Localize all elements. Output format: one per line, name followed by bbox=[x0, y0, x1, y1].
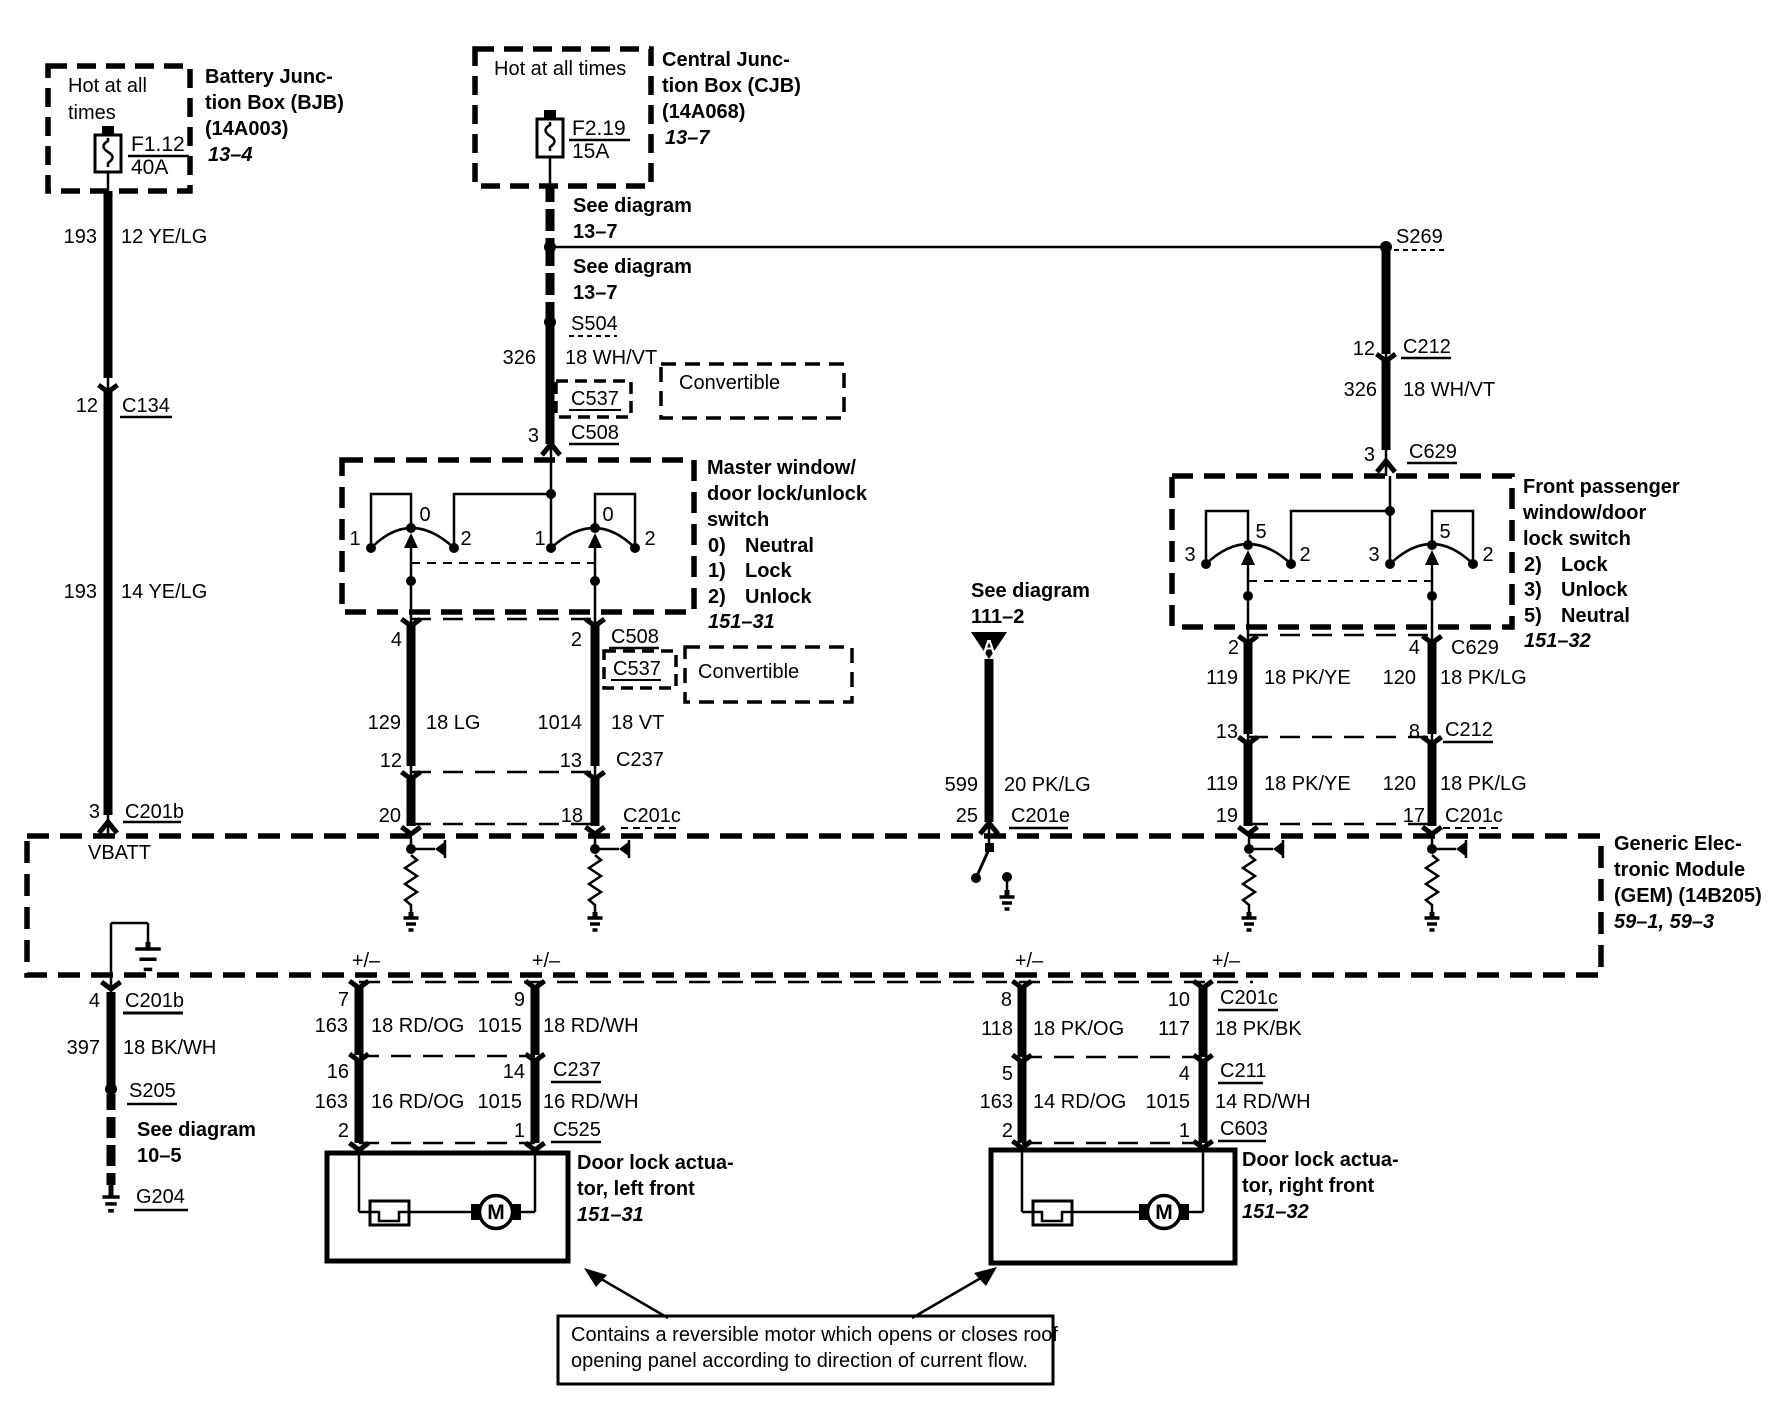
svg-text:12: 12 bbox=[380, 750, 402, 772]
svg-text:3: 3 bbox=[1184, 544, 1195, 566]
svg-text:C201c: C201c bbox=[623, 805, 681, 827]
front passenger window / door lock switch dashed box bbox=[1172, 476, 1512, 627]
svg-text:163: 163 bbox=[315, 1015, 348, 1037]
svg-text:C237: C237 bbox=[553, 1059, 601, 1081]
svg-text:Convertible: Convertible bbox=[679, 372, 780, 394]
svg-text:0: 0 bbox=[419, 504, 430, 526]
svg-text:See diagram: See diagram bbox=[971, 580, 1090, 602]
svg-text:+/–: +/– bbox=[1212, 950, 1241, 972]
svg-text:193: 193 bbox=[64, 226, 97, 248]
svg-text:3): 3) bbox=[1524, 579, 1542, 601]
svg-text:tronic Module: tronic Module bbox=[1614, 859, 1745, 881]
svg-text:C201e: C201e bbox=[1011, 805, 1070, 827]
svg-text:3: 3 bbox=[528, 425, 539, 447]
label See diagram 111-2 bbox=[971, 580, 1090, 628]
svg-text:12: 12 bbox=[76, 395, 98, 417]
svg-text:Convertible: Convertible bbox=[698, 661, 799, 683]
Convertible callout box lower bbox=[685, 647, 852, 702]
svg-text:M: M bbox=[487, 1201, 505, 1224]
wire passenger pin2 to GEM, circuit 119 18 PK/YE bbox=[1244, 643, 1253, 734]
labels pins 7 and 9 bbox=[338, 989, 525, 1011]
svg-text:C525: C525 bbox=[553, 1119, 601, 1141]
svg-text:C629: C629 bbox=[1451, 637, 1499, 659]
labels pins 8 and 10 and C201c bbox=[1001, 987, 1278, 1011]
svg-text:119: 119 bbox=[1206, 773, 1238, 795]
master switch label block bbox=[707, 457, 868, 633]
svg-text:18 RD/OG: 18 RD/OG bbox=[371, 1015, 464, 1037]
svg-text:2: 2 bbox=[338, 1120, 349, 1142]
svg-text:1: 1 bbox=[349, 528, 360, 550]
connector C508 pin 3 into master switch bbox=[528, 422, 619, 460]
svg-text:Battery Junc-: Battery Junc- bbox=[205, 66, 333, 88]
svg-text:18 WH/VT: 18 WH/VT bbox=[1403, 379, 1495, 401]
svg-text:C201c: C201c bbox=[1220, 987, 1278, 1009]
svg-text:C629: C629 bbox=[1409, 441, 1457, 463]
note box about reversible motor bbox=[558, 1316, 1058, 1384]
svg-text:+/–: +/– bbox=[1015, 950, 1044, 972]
svg-text:120: 120 bbox=[1383, 773, 1416, 795]
svg-text:13–7: 13–7 bbox=[573, 282, 618, 304]
wires C211 to C603, circuits 163 14 RD/OG 1015 14 RD/WH bbox=[980, 1062, 1311, 1143]
svg-text:S205: S205 bbox=[129, 1080, 176, 1102]
svg-text:Hot at all times: Hot at all times bbox=[494, 58, 626, 80]
connector C201b pin 3 into GEM bbox=[89, 801, 184, 834]
dashed wire S205 to G204 bbox=[107, 1094, 116, 1185]
svg-text:A: A bbox=[983, 637, 996, 657]
resistor with sense arrow and ground inside GEM for wire 19 bbox=[1242, 838, 1284, 930]
actuator internal wiring tor, left front bbox=[359, 1153, 535, 1212]
svg-text:13–7: 13–7 bbox=[665, 127, 710, 149]
svg-text:5: 5 bbox=[1002, 1063, 1013, 1085]
svg-text:2: 2 bbox=[571, 629, 582, 651]
long connector line C201c below GEM bottom bbox=[359, 981, 1253, 984]
connector C629 pin 3 into passenger switch bbox=[1364, 441, 1457, 476]
svg-text:+/–: +/– bbox=[532, 950, 561, 972]
connector C537 (convertible) box upper bbox=[556, 381, 631, 417]
svg-text:times: times bbox=[68, 102, 116, 124]
svg-text:1: 1 bbox=[534, 528, 545, 550]
svg-text:See diagram: See diagram bbox=[137, 1119, 256, 1141]
svg-text:326: 326 bbox=[503, 347, 536, 369]
note arrow to right actuator bbox=[912, 1267, 997, 1318]
master window / door lock unlock switch dashed box bbox=[342, 460, 694, 612]
wire from F1.12 to C134, circuit 193 12 YE/LG bbox=[107, 172, 110, 392]
svg-text:59–1, 59–3: 59–1, 59–3 bbox=[1614, 911, 1714, 933]
connector C201e pin 25 at GEM bbox=[956, 805, 1070, 836]
resistor with sense arrow and ground inside GEM for wire 18 bbox=[588, 838, 630, 930]
wire GEM pin9 to C237, circuit 1015 18 RD/WH bbox=[526, 981, 545, 1055]
mechanical link between passenger rockers bbox=[1248, 580, 1432, 582]
svg-text:C237: C237 bbox=[616, 749, 664, 771]
svg-text:18 PK/LG: 18 PK/LG bbox=[1440, 773, 1527, 795]
svg-text:20: 20 bbox=[379, 805, 401, 827]
svg-text:13–7: 13–7 bbox=[573, 221, 618, 243]
svg-text:18 PK/OG: 18 PK/OG bbox=[1033, 1018, 1124, 1040]
GEM label block bbox=[1614, 833, 1762, 933]
svg-text:C537: C537 bbox=[613, 658, 661, 680]
svg-text:15A: 15A bbox=[572, 140, 609, 163]
Convertible callout box upper bbox=[661, 364, 844, 418]
mechanical link between master rockers bbox=[411, 562, 595, 564]
svg-text:397: 397 bbox=[67, 1037, 100, 1059]
connector C237 crossing pins 16 and 14 bbox=[327, 1054, 601, 1083]
svg-text:5): 5) bbox=[1524, 605, 1542, 627]
wire GEM pin8 to C211, circuit 118 18 PK/OG bbox=[1013, 981, 1032, 1057]
svg-text:M: M bbox=[1155, 1201, 1173, 1224]
connector C212 pin 12 bbox=[1353, 336, 1451, 361]
svg-text:C508: C508 bbox=[611, 626, 659, 648]
svg-text:117: 117 bbox=[1158, 1018, 1190, 1040]
wire GEM pin10 to C211, circuit 117 18 PK/BK bbox=[1194, 981, 1213, 1057]
connector C525 crossing pins 2 and 1 into left actuator bbox=[338, 1119, 601, 1150]
svg-text:Door lock actua-: Door lock actua- bbox=[1242, 1149, 1399, 1171]
label See diagram 10-5 bbox=[137, 1119, 256, 1167]
svg-text:8: 8 bbox=[1409, 721, 1420, 743]
svg-text:switch: switch bbox=[707, 509, 769, 531]
door lock actuator box tor, left front bbox=[327, 1153, 568, 1261]
svg-text:0: 0 bbox=[602, 504, 613, 526]
lock mechanism symbol tor, right front bbox=[1033, 1201, 1072, 1225]
svg-text:C508: C508 bbox=[571, 422, 619, 444]
passenger switch label block bbox=[1522, 476, 1680, 652]
actuator label tor, right front bbox=[1242, 1149, 1399, 1223]
svg-text:19: 19 bbox=[1216, 805, 1238, 827]
svg-text:151–32: 151–32 bbox=[1242, 1201, 1309, 1223]
svg-text:2: 2 bbox=[1002, 1120, 1013, 1142]
label 193 12 YE/LG bbox=[64, 226, 208, 248]
svg-text:C201c: C201c bbox=[1445, 805, 1503, 827]
svg-text:4: 4 bbox=[1409, 637, 1420, 659]
door lock actuator box tor, right front bbox=[991, 1150, 1235, 1263]
connector C201c crossing into GEM right pair pins 19 17 bbox=[1216, 805, 1503, 834]
svg-text:(GEM) (14B205): (GEM) (14B205) bbox=[1614, 885, 1762, 907]
svg-text:18 BK/WH: 18 BK/WH bbox=[123, 1037, 216, 1059]
svg-text:C134: C134 bbox=[122, 395, 170, 417]
svg-text:151–31: 151–31 bbox=[577, 1204, 644, 1226]
splice S269 bbox=[1380, 226, 1444, 253]
svg-text:151–32: 151–32 bbox=[1524, 630, 1591, 652]
connector C134 bbox=[76, 385, 172, 417]
svg-text:18 PK/LG: 18 PK/LG bbox=[1440, 667, 1527, 689]
svg-text:(14A068): (14A068) bbox=[662, 101, 745, 123]
wire C134 to C201b, circuit 193 14 YE/LG bbox=[104, 392, 113, 815]
svg-text:tor, left front: tor, left front bbox=[577, 1178, 695, 1200]
svg-text:2: 2 bbox=[460, 528, 471, 550]
svg-text:3: 3 bbox=[89, 801, 100, 823]
svg-text:599: 599 bbox=[945, 774, 978, 796]
svg-text:16: 16 bbox=[327, 1061, 349, 1083]
GEM internal door lock switch sense contact at C201e bbox=[971, 836, 1015, 909]
svg-text:163: 163 bbox=[315, 1091, 348, 1113]
svg-text:Hot at all: Hot at all bbox=[68, 75, 147, 97]
resistor with sense arrow and ground inside GEM for wire 17 bbox=[1425, 838, 1467, 930]
battery junction box BJB dashed box bbox=[48, 66, 190, 191]
svg-text:2: 2 bbox=[1228, 637, 1239, 659]
wire GEM pin7 to C237, circuit 163 18 RD/OG bbox=[350, 981, 369, 1055]
dashed feed wire from F2.19 down to splice S504 bbox=[549, 157, 552, 244]
wire S269 to C212 bbox=[1382, 247, 1391, 354]
svg-text:18 PK/YE: 18 PK/YE bbox=[1264, 667, 1351, 689]
connector C211 crossing pins 5 and 4 bbox=[1002, 1055, 1266, 1085]
svg-text:0): 0) bbox=[708, 535, 726, 557]
svg-text:Door lock actua-: Door lock actua- bbox=[577, 1152, 734, 1174]
splice S205 bbox=[105, 1080, 177, 1104]
svg-text:tion Box (CJB): tion Box (CJB) bbox=[662, 75, 801, 97]
motor M tor, left front bbox=[409, 1196, 535, 1229]
svg-text:C211: C211 bbox=[1220, 1060, 1266, 1082]
labels 599 20 PK/LG bbox=[945, 774, 1091, 796]
svg-text:18 VT: 18 VT bbox=[611, 712, 664, 734]
svg-text:window/door: window/door bbox=[1522, 502, 1647, 524]
svg-text:1: 1 bbox=[514, 1120, 525, 1142]
passenger lock rocker (left half) contacts 3-5-2 bbox=[1184, 511, 1390, 627]
junction dot to S269 branch bbox=[544, 241, 556, 253]
labels 118 18 PK/OG 117 18 PK/BK bbox=[981, 1018, 1302, 1040]
wire master switch pin2 to GEM, circuit 1014 18 VT bbox=[591, 626, 600, 778]
connector C201b pin 4 below GEM bbox=[89, 975, 184, 1013]
svg-text:C201b: C201b bbox=[125, 801, 184, 823]
connector C603 crossing pins 2 and 1 into right actuator bbox=[1002, 1118, 1268, 1148]
svg-text:2: 2 bbox=[1299, 544, 1310, 566]
svg-text:2: 2 bbox=[1482, 544, 1493, 566]
svg-text:18 RD/WH: 18 RD/WH bbox=[543, 1015, 639, 1037]
label See diagram 13-7 (upper) bbox=[573, 195, 692, 243]
passenger window rocker (right half) contacts 3-5-2 bbox=[1368, 511, 1493, 627]
svg-text:13: 13 bbox=[1216, 721, 1238, 743]
svg-text:C603: C603 bbox=[1220, 1118, 1268, 1140]
svg-text:2): 2) bbox=[708, 586, 726, 608]
svg-text:opening panel according to dir: opening panel according to direction of … bbox=[571, 1350, 1028, 1372]
labels 119 18 PK/YE 120 18 PK/LG lower bbox=[1206, 773, 1527, 795]
note arrow to left actuator bbox=[584, 1268, 668, 1318]
svg-text:3: 3 bbox=[1364, 444, 1375, 466]
svg-text:tor, right front: tor, right front bbox=[1242, 1175, 1375, 1197]
svg-text:Central Junc-: Central Junc- bbox=[662, 49, 790, 71]
svg-text:3: 3 bbox=[1368, 544, 1379, 566]
svg-text:193: 193 bbox=[64, 581, 97, 603]
svg-text:C212: C212 bbox=[1403, 336, 1451, 358]
svg-text:1015: 1015 bbox=[478, 1091, 523, 1113]
labels 163 18 RD/OG 1015 18 RD/WH bbox=[315, 1015, 639, 1037]
svg-text:door lock/unlock: door lock/unlock bbox=[707, 483, 868, 505]
splice S504 bbox=[544, 313, 618, 336]
svg-text:326: 326 bbox=[1344, 379, 1377, 401]
svg-text:S504: S504 bbox=[571, 313, 618, 335]
labels 119 18 PK/YE 120 18 PK/LG upper bbox=[1206, 667, 1527, 689]
wire S504 to C508 master switch bbox=[546, 322, 555, 444]
fuse F2.19 15A bbox=[537, 110, 630, 163]
svg-text:Lock: Lock bbox=[1561, 554, 1609, 576]
svg-text:1: 1 bbox=[1179, 1120, 1190, 1142]
svg-text:14 YE/LG: 14 YE/LG bbox=[121, 581, 207, 603]
svg-text:20 PK/LG: 20 PK/LG bbox=[1004, 774, 1091, 796]
svg-text:F1.12: F1.12 bbox=[131, 133, 185, 156]
branch wire from S504 splice to S269 bbox=[550, 246, 1386, 249]
svg-text:C212: C212 bbox=[1445, 719, 1493, 741]
svg-text:F2.19: F2.19 bbox=[572, 117, 626, 140]
ground G204 bbox=[102, 1185, 188, 1211]
svg-text:(14A003): (14A003) bbox=[205, 118, 288, 140]
BJB text Hot at all times bbox=[68, 75, 147, 124]
svg-text:5: 5 bbox=[1439, 521, 1450, 543]
labels 129 18 LG / 1014 18 VT bbox=[368, 712, 665, 734]
label 193 14 YE/LG bbox=[64, 581, 208, 603]
label 326 18 WH/VT bbox=[503, 347, 658, 369]
passenger switch feed from C629 with junction bbox=[1385, 476, 1395, 516]
BJB label Battery Junction Box (14A003) 13-4 bbox=[205, 66, 344, 166]
wire C201b to S205, circuit 397 18 BK/WH bbox=[67, 992, 217, 1089]
actuator internal wiring tor, right front bbox=[1022, 1150, 1203, 1212]
GEM internal ground branch for wire 4 bbox=[111, 923, 161, 975]
svg-text:Lock: Lock bbox=[745, 560, 793, 582]
svg-text:18 PK/BK: 18 PK/BK bbox=[1215, 1018, 1302, 1040]
svg-text:13–4: 13–4 bbox=[208, 144, 253, 166]
svg-text:Contains a reversible motor wh: Contains a reversible motor which opens … bbox=[571, 1324, 1058, 1346]
svg-text:4: 4 bbox=[1179, 1063, 1190, 1085]
svg-text:119: 119 bbox=[1206, 667, 1238, 689]
svg-text:Generic Elec-: Generic Elec- bbox=[1614, 833, 1742, 855]
connector C212 crossing pins 13 and 8 bbox=[1216, 719, 1493, 744]
svg-text:Unlock: Unlock bbox=[745, 586, 813, 608]
svg-text:See diagram: See diagram bbox=[573, 195, 692, 217]
svg-text:2: 2 bbox=[644, 528, 655, 550]
connector C537 (convertible) box lower bbox=[604, 651, 676, 688]
lock mechanism symbol tor, left front bbox=[370, 1201, 409, 1225]
svg-text:14 RD/WH: 14 RD/WH bbox=[1215, 1091, 1311, 1113]
off-page triangle connector A bbox=[971, 632, 1007, 659]
motor M tor, right front bbox=[1072, 1196, 1203, 1229]
connector C201c crossing into GEM left pair bbox=[402, 824, 605, 834]
connector C237 crossing pins 12 and 13 bbox=[380, 749, 664, 779]
svg-text:12 YE/LG: 12 YE/LG bbox=[121, 226, 207, 248]
svg-text:tion Box (BJB): tion Box (BJB) bbox=[205, 92, 344, 114]
wires C237 to C201c bbox=[411, 779, 595, 826]
svg-text:4: 4 bbox=[391, 629, 402, 651]
svg-text:14 RD/OG: 14 RD/OG bbox=[1033, 1091, 1126, 1113]
svg-text:25: 25 bbox=[956, 805, 978, 827]
connector C629 below passenger switch pins 2 and 4 bbox=[1228, 627, 1499, 659]
svg-text:S269: S269 bbox=[1396, 226, 1443, 248]
svg-text:C201b: C201b bbox=[125, 990, 184, 1012]
svg-text:151–31: 151–31 bbox=[708, 611, 775, 633]
svg-text:8: 8 bbox=[1001, 989, 1012, 1011]
connector C508 below master switch, pins 4 and 2 bbox=[391, 612, 659, 651]
svg-text:+/–: +/– bbox=[352, 950, 381, 972]
svg-text:Front passenger: Front passenger bbox=[1523, 476, 1680, 498]
svg-text:13: 13 bbox=[560, 750, 582, 772]
svg-text:10–5: 10–5 bbox=[137, 1145, 182, 1167]
svg-text:See diagram: See diagram bbox=[573, 256, 692, 278]
svg-text:18 WH/VT: 18 WH/VT bbox=[565, 347, 657, 369]
svg-text:111–2: 111–2 bbox=[971, 606, 1024, 628]
svg-text:1014: 1014 bbox=[538, 712, 583, 734]
svg-text:G204: G204 bbox=[136, 1186, 185, 1208]
generic electronic module GEM dashed box bbox=[27, 836, 1601, 975]
svg-text:18 PK/YE: 18 PK/YE bbox=[1264, 773, 1351, 795]
svg-text:Neutral: Neutral bbox=[745, 535, 814, 557]
wire triangle A to C201e, circuit 599 20 PK/LG bbox=[985, 659, 994, 822]
actuator label tor, left front bbox=[577, 1152, 734, 1226]
labels pins 20 and 18 and C201c bbox=[379, 805, 681, 828]
master window rocker (right half) contacts 1-0-2 bbox=[534, 494, 655, 612]
svg-text:40A: 40A bbox=[131, 156, 168, 179]
svg-text:VBATT: VBATT bbox=[88, 842, 151, 864]
wire splice dot to S504 (dashed) bbox=[546, 250, 555, 318]
svg-text:lock switch: lock switch bbox=[1523, 528, 1631, 550]
svg-text:Neutral: Neutral bbox=[1561, 605, 1630, 627]
svg-text:129: 129 bbox=[368, 712, 401, 734]
svg-text:1015: 1015 bbox=[1146, 1091, 1191, 1113]
wires C212 to C201c right pair bbox=[1248, 744, 1432, 826]
svg-text:163: 163 bbox=[980, 1091, 1013, 1113]
label See diagram 13-7 (lower) bbox=[573, 256, 692, 304]
fuse F1.12 40A bbox=[95, 126, 189, 179]
svg-text:1015: 1015 bbox=[478, 1015, 523, 1037]
svg-text:16 RD/WH: 16 RD/WH bbox=[543, 1091, 639, 1113]
svg-text:1): 1) bbox=[708, 560, 726, 582]
svg-text:Unlock: Unlock bbox=[1561, 579, 1629, 601]
svg-text:9: 9 bbox=[514, 989, 525, 1011]
resistor with sense arrow and ground inside GEM for wire 20 bbox=[404, 838, 446, 930]
svg-text:18 LG: 18 LG bbox=[426, 712, 480, 734]
master lock/unlock rocker (left half) contacts 1-0-2 bbox=[349, 494, 551, 612]
svg-text:2): 2) bbox=[1524, 554, 1542, 576]
wire C212 to C629, circuit 326 18 WH/VT bbox=[1344, 361, 1496, 450]
svg-text:118: 118 bbox=[981, 1018, 1013, 1040]
svg-text:5: 5 bbox=[1255, 521, 1266, 543]
wires C237 to C525, circuits 163 16 RD/OG 1015 16 RD/WH bbox=[315, 1061, 639, 1143]
svg-text:120: 120 bbox=[1383, 667, 1416, 689]
master switch feed from C508 with junction bbox=[546, 460, 556, 499]
svg-text:7: 7 bbox=[338, 989, 349, 1011]
svg-text:12: 12 bbox=[1353, 338, 1375, 360]
svg-text:16 RD/OG: 16 RD/OG bbox=[371, 1091, 464, 1113]
CJB label Central Junction Box (14A068) 13-7 bbox=[662, 49, 801, 149]
svg-text:C537: C537 bbox=[571, 388, 619, 410]
wire passenger pin4 to GEM, circuit 120 18 PK/LG bbox=[1428, 643, 1437, 734]
wire master switch pin4 to GEM, circuit 129 18 LG bbox=[407, 626, 416, 778]
svg-text:4: 4 bbox=[89, 990, 100, 1012]
svg-text:Master window/: Master window/ bbox=[707, 457, 856, 479]
svg-text:14: 14 bbox=[503, 1061, 525, 1083]
central junction box CJB dashed box bbox=[475, 49, 651, 186]
svg-text:10: 10 bbox=[1168, 989, 1190, 1011]
